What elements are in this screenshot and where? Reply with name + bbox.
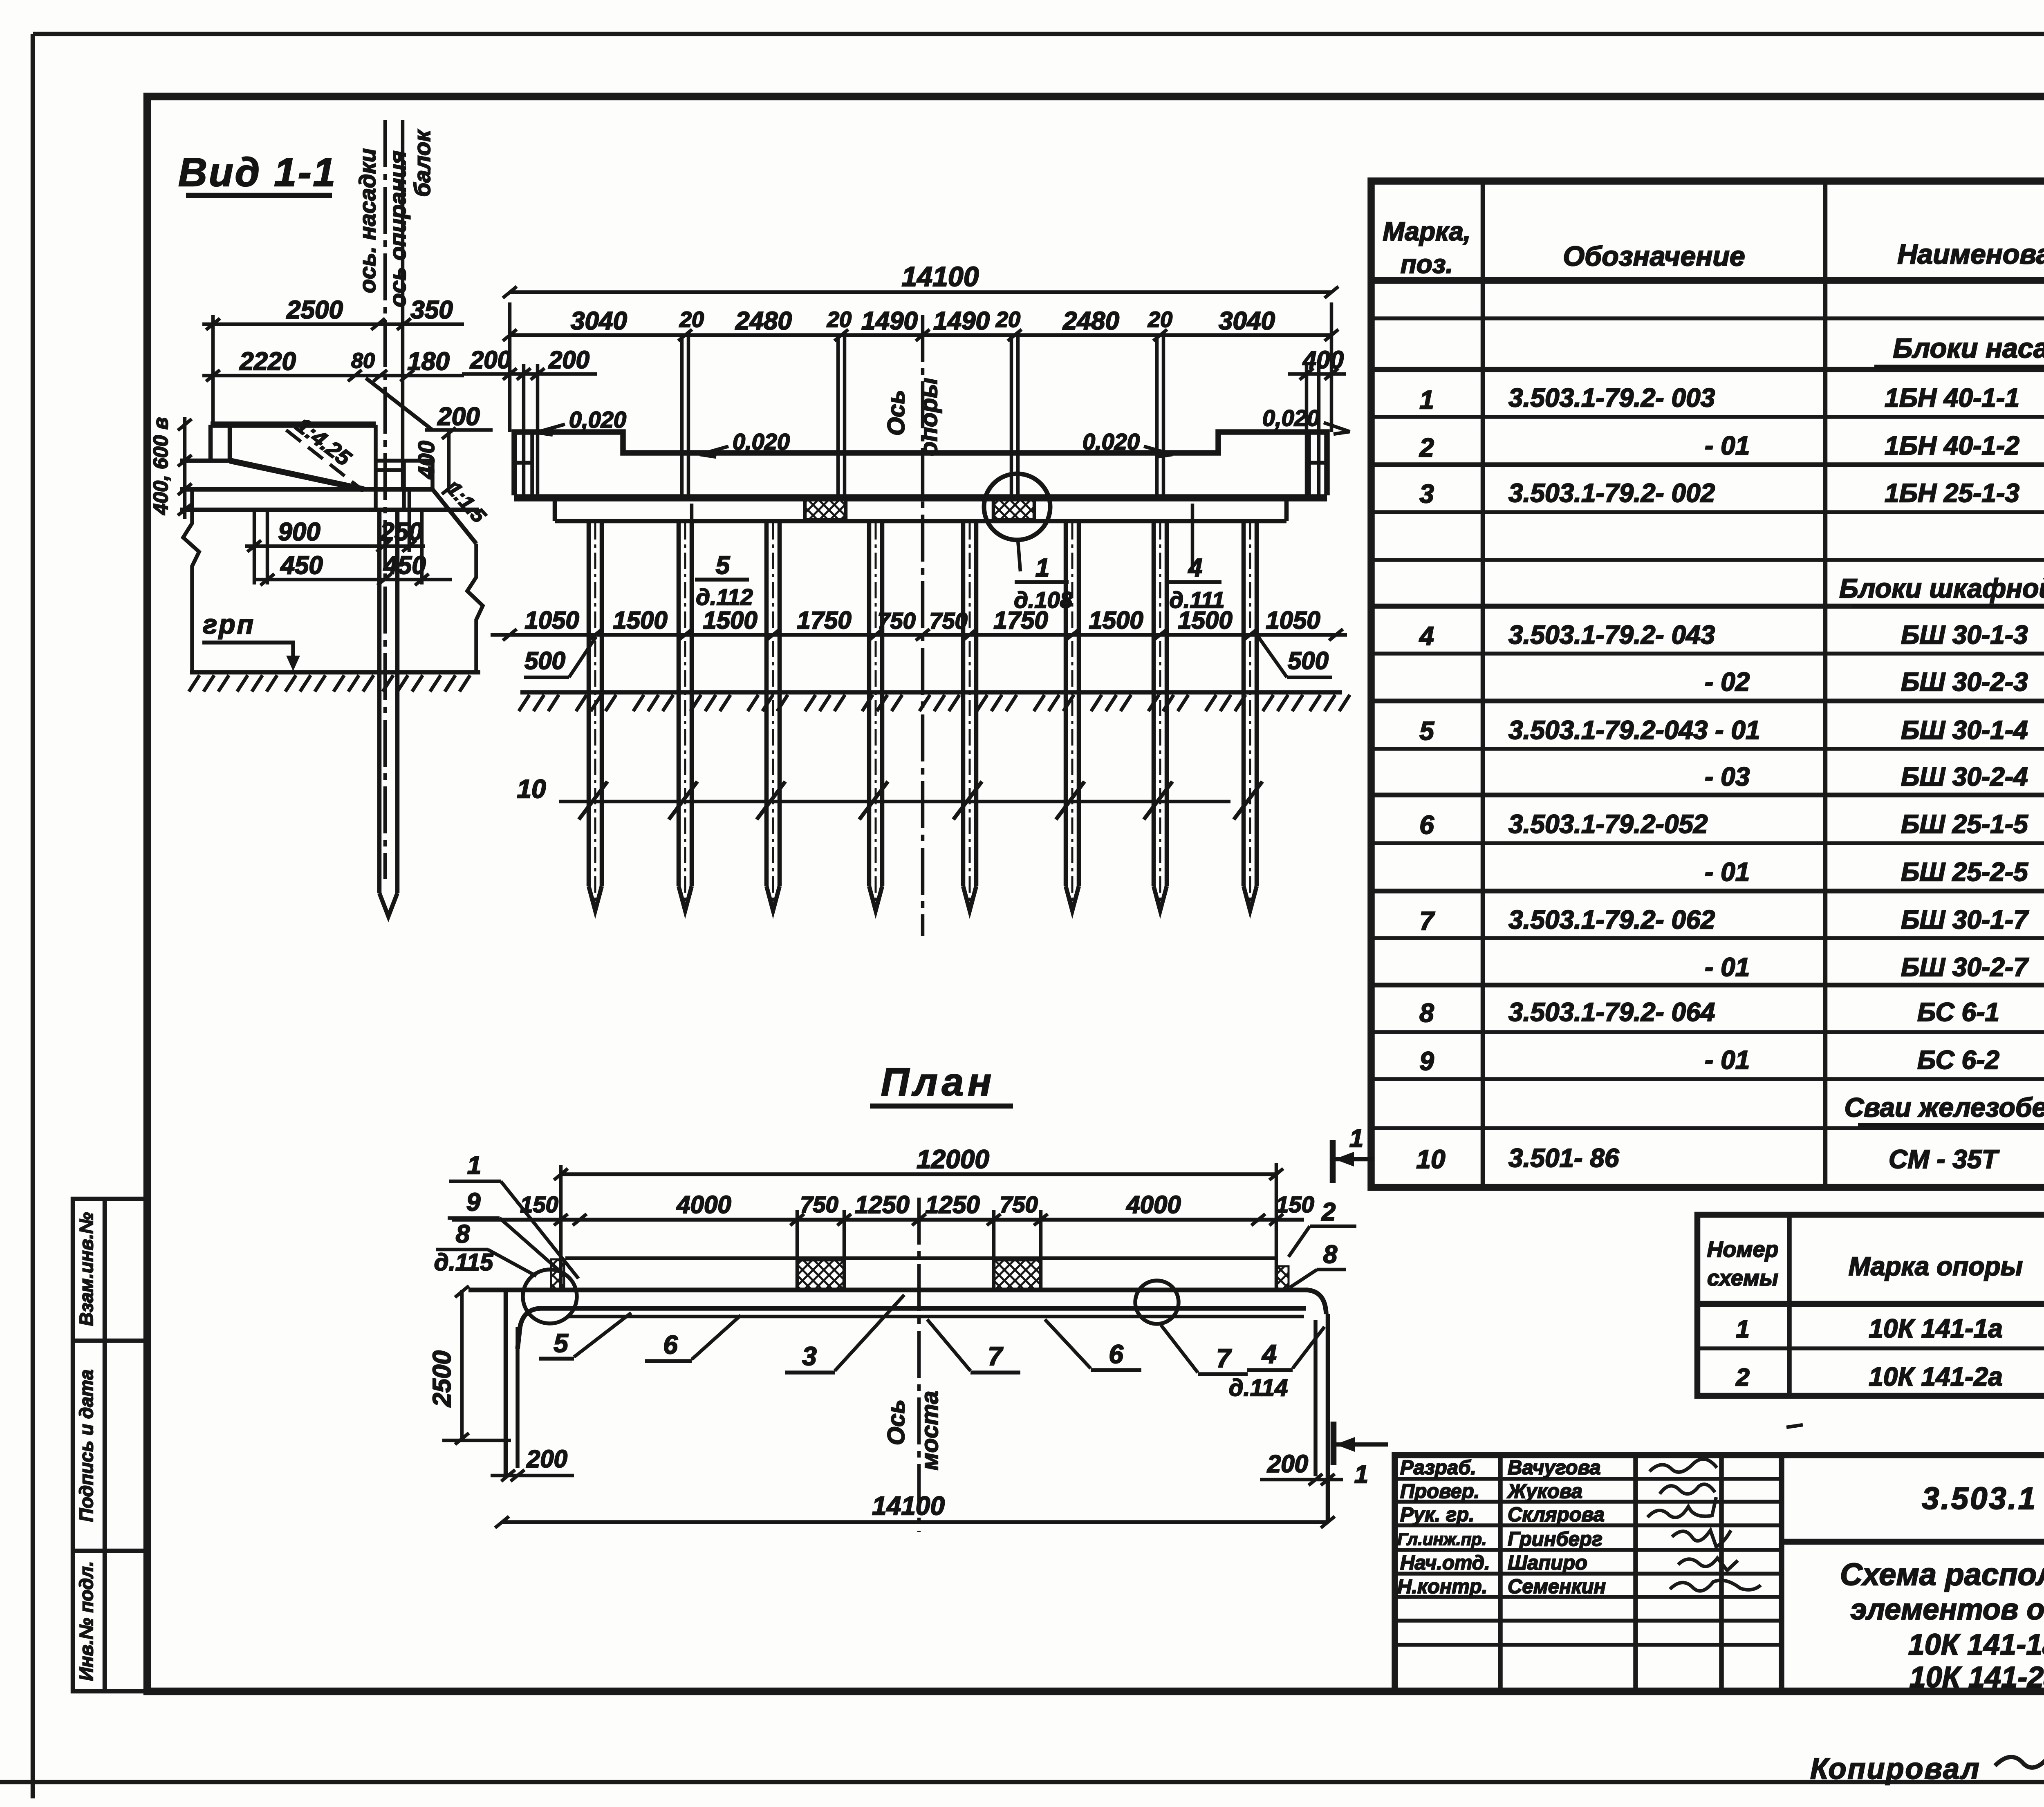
dim 150/4000/750/1250/1250/750/4000/150 [452,1218,1304,1222]
svg-text:2480: 2480 [1062,307,1119,335]
svg-text:8: 8 [456,1220,470,1248]
svg-text:Наименование: Наименование [1897,239,2044,270]
svg-text:2480: 2480 [735,307,792,335]
svg-text:200: 200 [526,1445,567,1473]
svg-text:14100: 14100 [901,261,979,292]
right break line [467,544,483,672]
left height dims 400,600 [183,417,187,519]
svg-text:2220: 2220 [239,347,296,376]
svg-text:- 03: - 03 [1705,762,1750,791]
block joint lines [682,337,1163,495]
svg-text:7: 7 [1216,1343,1232,1373]
svg-text:1: 1 [1736,1315,1749,1343]
bearing shelf right part [376,425,433,510]
svg-text:750: 750 [929,608,967,634]
svg-text:80: 80 [351,349,375,373]
svg-text:3.503.1-79.2-043 - 01: 3.503.1-79.2-043 - 01 [1508,715,1760,745]
pile label 1 / д.108 [1018,540,1020,571]
slope annotation 1:4.25 [286,430,361,488]
svg-text:Копировал: Копировал [1810,1753,1981,1785]
svg-text:2: 2 [1735,1364,1749,1391]
scheme table texts [1707,1237,2044,1391]
dim 450 / 450 [253,578,452,582]
svg-text:750: 750 [800,1191,838,1217]
svg-text:150: 150 [1276,1191,1314,1217]
svg-text:1250: 1250 [925,1191,979,1218]
svg-text:1750: 1750 [993,607,1048,634]
specification table grid [1371,181,2044,1187]
svg-text:20: 20 [679,307,704,332]
svg-text:3.503.1-79.2- 003: 3.503.1-79.2- 003 [1508,383,1715,412]
svg-text:3040: 3040 [571,307,627,335]
svg-text:Вачугова: Вачугова [1508,1457,1601,1479]
svg-text:1БН 40-1-1: 1БН 40-1-1 [1885,383,2019,412]
svg-text:Ось: Ось [883,390,910,436]
svg-text:БШ 25-1-5: БШ 25-1-5 [1901,809,2028,839]
svg-text:9: 9 [466,1188,481,1216]
svg-text:1250: 1250 [855,1191,909,1218]
svg-text:3.503.1-79.2- 064: 3.503.1-79.2- 064 [1508,997,1715,1027]
svg-text:Семенкин: Семенкин [1508,1576,1606,1598]
svg-text:- 01: - 01 [1705,952,1750,982]
section mark 1 (top) [1330,1140,1336,1183]
svg-text:1500: 1500 [1178,607,1232,634]
svg-text:Шапиро: Шапиро [1508,1552,1587,1574]
svg-text:д.115: д.115 [434,1249,493,1276]
svg-text:10К 141-1а,: 10К 141-1а, [1908,1628,2044,1661]
svg-text:Гл.инж.пр.: Гл.инж.пр. [1397,1529,1487,1549]
svg-text:900: 900 [278,518,320,546]
svg-text:5: 5 [554,1328,569,1358]
svg-text:Разраб.: Разраб. [1400,1457,1476,1479]
girder bearing axis [401,120,405,489]
svg-text:1490: 1490 [933,307,990,335]
svg-text:8: 8 [1323,1240,1338,1269]
svg-text:20: 20 [827,307,852,332]
slope labels 0,020 [569,405,1320,455]
svg-text:3.503.1-79.2- 062: 3.503.1-79.2- 062 [1508,905,1715,934]
plan bearing pad right [994,1260,1041,1290]
svg-text:СМ - 35Т: СМ - 35Т [1889,1144,2000,1174]
svg-text:400, 600 в: 400, 600 в [149,417,172,515]
witness lines [561,1163,1276,1292]
svg-text:200: 200 [1267,1450,1308,1478]
cap outline [514,432,1327,495]
svg-text:1: 1 [467,1151,481,1180]
svg-text:План: План [881,1060,995,1104]
segment dim line 3040/20/2480/20/1490/1490/20/2480/20/3040 [510,333,1331,337]
left wing edges [504,1290,508,1476]
table header texts [1383,189,2044,279]
cap sloped bottom (1:4.25) [230,461,364,489]
detail circle left (д.115) [523,1270,577,1323]
svg-text:2500: 2500 [428,1350,456,1407]
svg-text:1500: 1500 [703,607,757,634]
left edge dims 200 200 [462,372,597,376]
svg-text:20: 20 [1148,307,1172,332]
dim 900 / 250 [245,544,425,548]
title block signature labels [1397,1457,1606,1598]
pile spacing dim line [491,633,1347,637]
svg-text:450: 450 [383,551,426,580]
svg-text:3.503.1 -79.1- 006: 3.503.1 -79.1- 006 [1922,1481,2044,1516]
svg-text:20: 20 [995,307,1020,332]
svg-text:0,020: 0,020 [733,429,790,455]
svg-text:1500: 1500 [1089,607,1143,634]
svg-text:1050: 1050 [524,607,579,634]
svg-text:500: 500 [524,647,565,674]
svg-text:Вид 1-1: Вид 1-1 [178,150,337,195]
svg-text:1: 1 [1354,1460,1368,1489]
svg-text:10К 141-2а: 10К 141-2а [1869,1362,2003,1391]
svg-text:200: 200 [437,403,480,431]
svg-text:4: 4 [1419,621,1434,651]
svg-text:250: 250 [380,518,422,546]
svg-text:Жукова: Жукова [1506,1480,1582,1502]
svg-text:1490: 1490 [861,307,918,335]
svg-text:500: 500 [1288,647,1329,674]
svg-text:опоры: опоры [916,378,942,456]
svg-text:ось. насадки: ось. насадки [354,148,380,293]
dim line 2500 / 350 [202,315,464,425]
svg-text:5: 5 [716,551,731,580]
dim 14100 (plan) [502,1520,1328,1524]
piles [589,521,1257,911]
pile centre axes [594,523,596,914]
svg-text:- 02: - 02 [1705,667,1750,696]
scheme table grid [1697,1215,2044,1396]
cap bottom edge [180,487,433,492]
svg-text:Взам.инв.№: Взам.инв.№ [76,1212,97,1326]
svg-text:элементов опор: элементов опор [1851,1593,2044,1626]
svg-text:1: 1 [1419,385,1434,414]
title block grid [1395,1455,2044,1691]
leader to 200 dim [366,378,433,430]
svg-text:д.114: д.114 [1229,1375,1288,1401]
svg-text:Блоки насадки: Блоки насадки [1893,333,2044,364]
svg-text:7: 7 [988,1341,1004,1371]
svg-text:350: 350 [410,296,453,324]
svg-text:Номер: Номер [1707,1237,1779,1262]
svg-text:БШ 25-2-5: БШ 25-2-5 [1901,857,2028,887]
handwritten signatures [1647,1459,1761,1591]
witness verticals for 900/450 dims [254,489,422,584]
svg-text:7: 7 [1419,906,1435,936]
cap axis (dash-dot) [383,120,387,879]
svg-text:Ось: Ось [883,1399,910,1445]
left stamp column [73,1199,147,1691]
svg-text:12000: 12000 [917,1144,989,1174]
cap block top edge [211,421,376,428]
svg-text:ось опирания: ось опирания [385,150,410,307]
svg-text:БШ 30-1-3: БШ 30-1-3 [1901,620,2028,649]
cap end block lines [514,432,1327,495]
dim line 2220 / 80 / 180 [202,374,464,378]
svg-text:2500: 2500 [286,296,343,324]
svg-text:180: 180 [407,347,449,376]
svg-text:3.501- 86: 3.501- 86 [1508,1143,1619,1173]
svg-text:2: 2 [1419,433,1434,462]
bearing pad left [805,499,846,520]
svg-text:1050: 1050 [1266,607,1320,634]
svg-text:200: 200 [470,346,511,374]
svg-text:Н.контр.: Н.контр. [1397,1576,1487,1598]
svg-text:10К 141-1а: 10К 141-1а [1869,1314,2003,1343]
stray mark under scheme table [1786,1425,1803,1427]
cap left end block [180,425,230,461]
svg-text:Обозначение: Обозначение [1563,241,1745,272]
svg-text:БС 6-1: БС 6-1 [1917,997,1999,1027]
svg-text:4000: 4000 [1126,1191,1181,1218]
svg-text:Марка,: Марка, [1383,217,1470,246]
svg-text:6: 6 [1109,1339,1123,1369]
svg-text:БШ 30-2-4: БШ 30-2-4 [1901,762,2028,791]
section mark 1 (bottom) [1331,1422,1337,1465]
pile cap band [555,501,1286,521]
svg-text:БШ 30-2-7: БШ 30-2-7 [1901,952,2029,982]
cap bottom (thick) [514,494,1327,502]
svg-text:БС 6-2: БС 6-2 [1917,1045,1999,1075]
bridge axis (dash-dot) [917,1198,921,1532]
svg-text:750: 750 [877,608,915,634]
svg-text:грп: грп [203,609,255,639]
svg-text:9: 9 [1419,1046,1434,1076]
svg-text:моста: моста [917,1391,943,1470]
ground line (view 1-1) [190,670,480,675]
svg-text:6: 6 [1419,810,1434,840]
dim 12000 [561,1172,1276,1176]
svg-text:д.112: д.112 [696,584,753,610]
svg-text:6: 6 [663,1330,678,1359]
cap bar outline [468,1290,1326,1349]
svg-text:200: 200 [548,346,589,374]
svg-text:3.503.1-79.2-052: 3.503.1-79.2-052 [1508,809,1708,839]
svg-text:Блоки шкафной стенки: Блоки шкафной стенки [1839,573,2044,603]
slope 1:1.5 edge [433,489,476,544]
svg-text:0,020: 0,020 [1083,429,1140,455]
svg-text:8: 8 [1419,998,1434,1028]
right wing edges [1313,1320,1318,1476]
svg-text:0,020: 0,020 [1262,405,1320,431]
svg-text:Инв.№ подл.: Инв.№ подл. [76,1561,97,1681]
pile label 4 / д.111 [1191,504,1195,571]
svg-text:- 01: - 01 [1705,857,1750,887]
svg-text:3.503.1-79.2- 002: 3.503.1-79.2- 002 [1508,478,1715,508]
svg-text:Сваи железобетонные: Сваи железобетонные [1845,1092,2044,1122]
svg-text:1БН 25-1-3: 1БН 25-1-3 [1885,478,2019,508]
svg-text:3040: 3040 [1219,307,1275,335]
svg-text:0,020: 0,020 [569,407,626,432]
svg-text:- 01: - 01 [1705,1045,1750,1075]
left break line [183,489,199,672]
svg-text:4: 4 [1261,1339,1277,1369]
svg-text:3: 3 [802,1341,817,1371]
svg-text:10: 10 [1416,1144,1445,1174]
bearing pad right (circled detail) [993,499,1034,520]
pile label 5 / д.112 [690,504,694,568]
svg-text:1БН 40-1-2: 1БН 40-1-2 [1885,431,2019,460]
cap lower band [180,508,479,512]
svg-text:1: 1 [1349,1124,1363,1153]
svg-text:Гринберг: Гринберг [1508,1528,1602,1550]
dim 2500 [460,1290,464,1440]
svg-text:3: 3 [1419,479,1434,508]
svg-text:4000: 4000 [676,1191,731,1218]
svg-text:Схема расположения: Схема расположения [1840,1557,2044,1592]
svg-text:1500: 1500 [613,607,667,634]
ground line (elevation) [520,690,1342,695]
svg-text:- 01: - 01 [1705,431,1750,460]
svg-text:14100: 14100 [872,1491,945,1520]
plan bearing pad left [797,1260,844,1290]
top thin edge (wall blocks) [565,1256,1277,1260]
svg-text:10: 10 [517,774,546,804]
end block strip left (hatched) [551,1259,564,1289]
svg-text:1750: 1750 [797,607,851,634]
right edge dim 400 [1288,372,1346,376]
detail circle right (д.114) [1135,1281,1179,1324]
svg-text:схемы: схемы [1707,1266,1778,1290]
svg-text:750: 750 [1000,1191,1038,1217]
table body rows [1416,383,2044,1174]
svg-text:БШ 30-1-4: БШ 30-1-4 [1901,715,2028,745]
single pile (view 1-1) [379,510,397,916]
svg-text:10К 141-2а: 10К 141-2а [1910,1661,2044,1694]
svg-text:1: 1 [1035,554,1049,582]
svg-text:450: 450 [280,551,323,580]
svg-text:Провер.: Провер. [1400,1480,1479,1502]
svg-text:Подпись и дата: Подпись и дата [76,1370,97,1522]
end block strip right (hatched) [1277,1266,1289,1291]
svg-text:Нач.отд.: Нач.отд. [1400,1552,1490,1574]
svg-text:БШ 30-1-7: БШ 30-1-7 [1901,905,2029,934]
copier signature [1995,1755,2044,1775]
svg-text:поз.: поз. [1401,249,1453,279]
title text [1840,1557,2044,1694]
svg-text:Марка опоры: Марка опоры [1849,1252,2023,1281]
pier axis (dash-dot) [921,315,925,936]
svg-text:3.503.1-79.2- 043: 3.503.1-79.2- 043 [1508,620,1715,649]
vertical dim 400 (right of cap) [447,430,451,489]
svg-text:4: 4 [1188,554,1202,582]
svg-text:БШ 30-2-3: БШ 30-2-3 [1901,667,2028,696]
witness lines [510,302,1331,498]
svg-text:2: 2 [1321,1198,1336,1226]
overall dim 14100 [510,290,1331,294]
svg-text:Склярова: Склярова [1508,1504,1605,1526]
svg-text:5: 5 [1419,716,1434,746]
svg-text:Рук. гр.: Рук. гр. [1400,1504,1475,1526]
svg-text:балок: балок [409,129,435,197]
svg-text:400: 400 [1302,346,1344,374]
